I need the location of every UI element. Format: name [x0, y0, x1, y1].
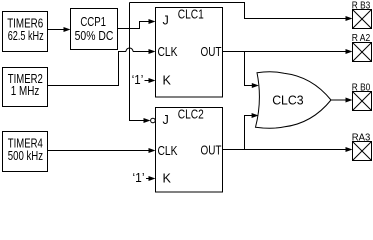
pin RB3 — [352, 1, 372, 29]
block TIMER4 — [3, 132, 48, 172]
wire TIMER2 to CLC1 CLK (with hop over net A) — [48, 48, 156, 85]
svg-text:CCP1: CCP1 — [80, 15, 106, 29]
block TIMER2 — [3, 68, 48, 107]
svg-text:CLC2: CLC2 — [178, 108, 204, 122]
pin RA3 — [352, 133, 372, 161]
svg-text:CLC3: CLC3 — [272, 94, 303, 108]
svg-text:OUT: OUT — [201, 144, 222, 158]
wire CLC3 output to RB0 — [331, 98, 353, 103]
svg-text:OUT: OUT — [201, 45, 222, 59]
inverter bubble at CLC2 J input — [151, 118, 156, 123]
wire TIMER4 to CLC2 CLK — [48, 148, 156, 153]
svg-text:CLK: CLK — [158, 45, 178, 59]
svg-text:J: J — [163, 113, 169, 127]
svg-text:CLK: CLK — [158, 144, 178, 158]
svg-text:1 MHz: 1 MHz — [11, 84, 40, 98]
block TIMER6 — [3, 12, 48, 52]
wire branch CLC1 OUT to CLC3 upper input — [245, 52, 259, 89]
wire '1' to CLC1 K — [145, 78, 156, 83]
svg-text:500 kHz: 500 kHz — [8, 149, 43, 163]
wire CLC2 OUT to RA3 — [223, 147, 353, 152]
svg-text:‘1’: ‘1’ — [132, 73, 144, 87]
svg-text:J: J — [163, 14, 169, 28]
or-gate CLC3 — [256, 72, 332, 128]
wire CLC1 OUT to RA2 — [223, 49, 353, 54]
svg-text:50% DC: 50% DC — [75, 29, 114, 43]
svg-text:K: K — [163, 74, 172, 88]
wire '1' to CLC2 K — [146, 176, 156, 181]
svg-text:CLC1: CLC1 — [178, 8, 204, 22]
wire top net to RB3 — [130, 3, 353, 22]
wire TIMER6 to CCP1 — [48, 27, 71, 32]
wire CCP1 output to CLC1 J input — [118, 19, 156, 29]
block CLC2 — [156, 108, 223, 193]
svg-text:62.5 kHz: 62.5 kHz — [8, 29, 44, 43]
block CCP1 — [71, 9, 118, 50]
pin RB0 — [352, 83, 372, 111]
svg-text:‘1’: ‘1’ — [133, 171, 145, 185]
wire vertical net A (CCP1 net down to CLC2 J) — [130, 3, 151, 124]
block CLC1 — [156, 8, 223, 98]
wire branch CLC2 OUT to CLC3 lower input — [245, 113, 259, 150]
svg-text:K: K — [163, 172, 172, 186]
pin RA2 — [352, 33, 372, 62]
